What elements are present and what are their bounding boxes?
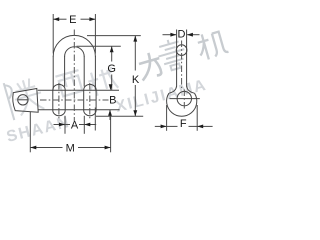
arrow F left (points right) bbox=[161, 125, 167, 129]
dim D line bbox=[163, 34, 177, 36]
dim A right extension line bbox=[83, 116, 85, 134]
arrow E right bbox=[89, 17, 95, 21]
pin shaft left edge bbox=[176, 30, 178, 87]
dim G top extension line bbox=[77, 45, 121, 47]
pin vertical centerline bbox=[181, 41, 183, 89]
pin hole horizontal crosshair bbox=[170, 98, 200, 100]
svg-text:M: M bbox=[66, 142, 75, 154]
shackle bow inner arc bbox=[65, 47, 85, 57]
dim F line bbox=[155, 125, 167, 127]
pin head eye circle bbox=[18, 95, 28, 105]
left boss hole centerline bbox=[58, 83, 60, 120]
left leg boss outline bbox=[53, 84, 65, 115]
watermark char 机 bbox=[195, 29, 229, 62]
dim E right extension line bbox=[94, 14, 96, 54]
dim M left extension line bbox=[29, 112, 31, 152]
arrow D left (points right) bbox=[170, 33, 176, 37]
pin head eye slot bbox=[18, 99, 27, 101]
arrow K top (up) bbox=[133, 36, 137, 42]
right leg boss outline bbox=[84, 84, 96, 115]
pin hole vertical centerline bbox=[183, 90, 185, 109]
right boss hole centerline bbox=[89, 83, 91, 120]
arrow D right (points left) bbox=[187, 33, 193, 37]
dim B bottom arrow shaft bbox=[109, 110, 111, 120]
arrow M right bbox=[105, 146, 111, 150]
arrow K bottom (down) bbox=[133, 110, 137, 116]
pin shaft right edge bbox=[186, 30, 188, 87]
dim M line bbox=[30, 147, 62, 149]
left leg inner edge bbox=[64, 56, 66, 87]
side view bbox=[167, 30, 200, 117]
shackle bow outer arc bbox=[53, 35, 95, 56]
svg-text:G: G bbox=[107, 63, 116, 75]
svg-text:E: E bbox=[69, 14, 76, 26]
arrow M left bbox=[30, 146, 36, 150]
arrow B bottom (up) bbox=[108, 110, 112, 116]
bow vertical centerline bbox=[73, 30, 75, 122]
arrow A left (points right) bbox=[59, 123, 65, 127]
svg-text:A: A bbox=[71, 119, 79, 131]
svg-text:B: B bbox=[109, 95, 116, 107]
watermark char 械 (faint partial) bbox=[85, 67, 119, 98]
dim E line bbox=[53, 18, 66, 20]
dim M right extension line bbox=[110, 114, 112, 152]
right leg outer edge bbox=[94, 56, 96, 90]
pin shaft top edge bbox=[38, 89, 119, 91]
pin shaft left flare bbox=[169, 86, 176, 93]
right leg inner edge bbox=[83, 56, 85, 87]
dim F right extension line bbox=[196, 105, 198, 131]
dim K top extension line bbox=[87, 35, 141, 37]
svg-text:K: K bbox=[132, 74, 140, 86]
dim F left extension line bbox=[166, 105, 168, 131]
pin eye small circle bbox=[176, 45, 187, 56]
arrow A right (points left) bbox=[84, 123, 90, 127]
arrow G bottom / B top (down) bbox=[109, 84, 113, 90]
watermark char 西 (mostly hidden behind legs) bbox=[55, 70, 84, 97]
pin hole circle bbox=[177, 91, 191, 105]
dim G line bbox=[111, 46, 113, 61]
pin lobe circle bbox=[167, 93, 197, 116]
arrow E left bbox=[53, 17, 59, 21]
dim K bottom extension line bbox=[96, 115, 143, 117]
arrow F right (points left) bbox=[197, 125, 203, 129]
right leg outer extension line bbox=[94, 108, 96, 131]
dim K line bbox=[134, 36, 136, 71]
watermark char 嘉 bbox=[155, 36, 189, 72]
pin horizontal centerline bbox=[40, 99, 109, 101]
left leg outer edge bbox=[52, 56, 54, 90]
pin head outline bbox=[13, 89, 38, 113]
watermark char 陕 bbox=[4, 74, 47, 120]
svg-text:D: D bbox=[178, 29, 186, 41]
pin shaft bottom edge bbox=[38, 109, 120, 111]
watermark char 力 bbox=[136, 50, 164, 80]
dim E left extension line bbox=[52, 14, 54, 54]
pin shaft right flare bbox=[187, 86, 195, 93]
svg-text:F: F bbox=[180, 118, 187, 130]
arrow G top (up) bbox=[110, 46, 114, 52]
dim A left extension line bbox=[64, 116, 66, 134]
dim A line with outside arrows bbox=[54, 124, 66, 126]
